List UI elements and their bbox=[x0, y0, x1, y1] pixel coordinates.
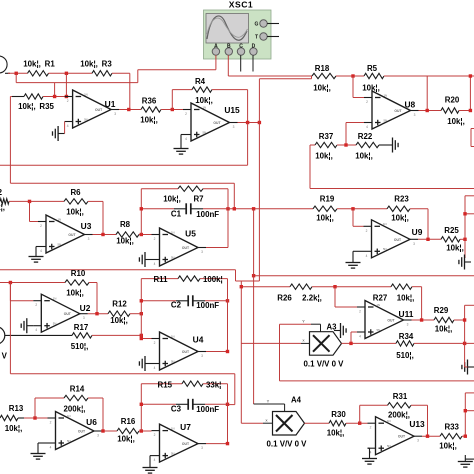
svg-text:200k¦,: 200k¦, bbox=[64, 405, 86, 414]
wire C2 box left bbox=[140, 279, 142, 339]
svg-text:3: 3 bbox=[407, 323, 409, 327]
resistor R2 (clipped) bbox=[0, 199, 9, 204]
svg-text:2: 2 bbox=[370, 426, 372, 430]
wire right edge stub upper bbox=[471, 129, 474, 147]
wire U11 plus from A3 out bbox=[351, 332, 357, 343]
resistor R4 bbox=[192, 87, 212, 92]
svg-text:0.1 V/V 0 V: 0.1 V/V 0 V bbox=[267, 440, 308, 449]
svg-text:5N: 5N bbox=[58, 242, 62, 246]
resistor R3 bbox=[92, 71, 112, 76]
wire U3 plus to ground bbox=[36, 247, 38, 251]
ground below R25 (rotated) bbox=[459, 255, 471, 270]
wire source jog to U1 input row bbox=[16, 73, 138, 96]
label R33 value bbox=[439, 442, 457, 451]
svg-text:1N: 1N bbox=[384, 93, 388, 97]
wire top-right row bbox=[228, 75, 312, 77]
oscilloscope bottom terminals A B C D bbox=[212, 43, 257, 55]
label R23 name bbox=[394, 195, 409, 204]
label R2 value (clipped) bbox=[0, 203, 5, 212]
node junction at 103,431 bbox=[101, 429, 104, 432]
node junction at 66.4,96.5 bbox=[65, 95, 68, 98]
svg-text:3: 3 bbox=[413, 242, 415, 246]
svg-text:10k¦,: 10k¦, bbox=[362, 84, 380, 93]
wire R37 left drop bbox=[310, 145, 315, 189]
resistor R15 bbox=[182, 381, 203, 386]
wire R34 right bbox=[414, 342, 474, 344]
svg-text:10k¦,: 10k¦, bbox=[140, 116, 158, 125]
svg-text:R17: R17 bbox=[74, 323, 89, 332]
resistor R34 bbox=[396, 341, 414, 346]
node junction at 227.5,351.5 bbox=[226, 350, 229, 353]
source V1 (AC input, clipped at edge) bbox=[0, 56, 10, 73]
oscilloscope side terminals G T bbox=[255, 20, 279, 41]
node junction at 172.3,109.5 bbox=[171, 108, 174, 111]
label R20 value bbox=[447, 117, 465, 126]
label A3 X pin bbox=[302, 338, 305, 343]
label C2 name bbox=[171, 301, 182, 310]
svg-text:R4: R4 bbox=[195, 77, 206, 86]
label R15 value bbox=[206, 380, 221, 389]
wire U15 output bbox=[238, 122, 261, 124]
node junction at 227.5,443.6 bbox=[226, 442, 229, 445]
svg-text:1N: 1N bbox=[203, 105, 207, 109]
label R19 name bbox=[320, 195, 335, 204]
wire node to U1 inverting input bbox=[65, 73, 67, 96]
label C3 value bbox=[196, 405, 219, 414]
svg-text:1N: 1N bbox=[53, 297, 57, 301]
label R15 name bbox=[158, 380, 173, 389]
svg-text:OUT: OUT bbox=[398, 435, 406, 439]
svg-text:10k¦,: 10k¦, bbox=[163, 195, 181, 204]
node junction at 141.3,313.7 bbox=[140, 312, 143, 315]
label R10 value bbox=[66, 289, 84, 298]
svg-text:200k¦,: 200k¦, bbox=[388, 411, 410, 420]
label R4 name bbox=[195, 77, 206, 86]
wire R35 to U1 minus bbox=[43, 96, 65, 98]
svg-text:10k¦,: 10k¦, bbox=[313, 84, 331, 93]
svg-text:OUT: OUT bbox=[394, 109, 402, 113]
label A4 name bbox=[291, 396, 302, 405]
wire source to R1 row bbox=[8, 72, 28, 74]
svg-text:5N: 5N bbox=[384, 118, 388, 122]
ground bottom-right bbox=[458, 455, 473, 467]
wire U7 output bbox=[206, 443, 228, 445]
svg-text:R8: R8 bbox=[120, 220, 131, 229]
node junction at 427.2,110.5 bbox=[426, 109, 429, 112]
svg-text:U5: U5 bbox=[185, 229, 196, 239]
svg-text:2: 2 bbox=[50, 421, 52, 425]
svg-text:100nF: 100nF bbox=[196, 301, 219, 310]
wire R25 right network bbox=[460, 196, 474, 240]
label R36 name bbox=[142, 97, 157, 106]
ground below R34 (rotated) bbox=[462, 360, 474, 375]
svg-text:10k¦,: 10k¦, bbox=[316, 214, 334, 223]
resistor R30 bbox=[329, 421, 346, 426]
svg-text:2.2k¦,: 2.2k¦, bbox=[302, 294, 322, 303]
svg-text:R23: R23 bbox=[394, 195, 409, 204]
svg-text:10k¦,: 10k¦, bbox=[0, 203, 5, 212]
svg-text:2: 2 bbox=[366, 229, 368, 233]
wire U2 output row bbox=[88, 313, 108, 315]
svg-text:5N: 5N bbox=[171, 359, 175, 363]
wire node to U11 minus bbox=[335, 287, 357, 307]
wire R35 left rail down bbox=[10, 97, 12, 184]
svg-text:R13: R13 bbox=[9, 404, 24, 413]
svg-text:5N: 5N bbox=[377, 328, 381, 332]
wire R27 right leg down bbox=[412, 287, 422, 320]
label R30 value bbox=[327, 429, 345, 438]
node junction at 465.3,410.7 bbox=[464, 409, 467, 412]
ground at U7 plus input bbox=[143, 461, 158, 473]
svg-text:10k¦,: 10k¦, bbox=[315, 152, 333, 161]
svg-text:4: 4 bbox=[366, 254, 368, 258]
wire A4 X input bbox=[241, 422, 272, 424]
svg-text:5N: 5N bbox=[171, 255, 175, 259]
resistor R16 bbox=[117, 428, 139, 433]
svg-text:3: 3 bbox=[201, 250, 203, 254]
svg-text:4: 4 bbox=[366, 125, 368, 129]
label R11 value bbox=[203, 275, 223, 284]
node junction at 141.3,431 bbox=[140, 429, 143, 432]
svg-text:R19: R19 bbox=[320, 195, 335, 204]
svg-text:OUT: OUT bbox=[78, 430, 86, 434]
svg-text:R29: R29 bbox=[434, 306, 449, 315]
op-amp U6 bbox=[48, 412, 103, 450]
label A3 Y pin bbox=[302, 319, 305, 324]
ground at U3 plus input bbox=[29, 250, 44, 262]
svg-text:10k¦,: 10k¦, bbox=[391, 214, 409, 223]
node junction at 141.3,234.5 bbox=[140, 233, 143, 236]
wire R5 right to edge bbox=[384, 75, 474, 77]
svg-text:2: 2 bbox=[154, 433, 156, 437]
node junction at 141.3,335.4 bbox=[140, 334, 143, 337]
resistor R33 bbox=[440, 434, 462, 439]
wire C1 branch bbox=[141, 208, 228, 210]
svg-text:0.1 V/V 0 V: 0.1 V/V 0 V bbox=[304, 360, 345, 369]
wire R8 to U5 minus node bbox=[139, 234, 152, 236]
label R8 name bbox=[120, 220, 131, 229]
wire U15 output bottom loop bbox=[0, 123, 248, 166]
svg-text:R15: R15 bbox=[158, 380, 173, 389]
wire source to R17 bbox=[5, 334, 72, 336]
label A4 X pin bbox=[265, 418, 268, 423]
wire R4 right leg bbox=[212, 90, 248, 123]
svg-text:3: 3 bbox=[233, 125, 235, 129]
op-amp U2 bbox=[33, 294, 90, 332]
label R29 value bbox=[435, 325, 453, 334]
wire R3 to U1 output (feedback) bbox=[112, 73, 130, 109]
resistor R18 bbox=[312, 73, 336, 78]
oscilloscope XSC1 body and screen bbox=[204, 10, 272, 59]
wire node to U9 minus bbox=[353, 209, 364, 227]
node junction at 470.4,110.5 bbox=[469, 109, 472, 112]
wire bottom-right stub bbox=[465, 458, 474, 460]
label R23 value bbox=[391, 214, 409, 223]
op-amp U3 bbox=[38, 215, 93, 253]
resistor R10 bbox=[65, 280, 89, 285]
op-amp U7 bbox=[152, 422, 207, 462]
svg-text:B: B bbox=[227, 43, 231, 49]
wire U6 output row bbox=[102, 430, 117, 432]
svg-text:R6: R6 bbox=[70, 188, 81, 197]
svg-text:R30: R30 bbox=[331, 410, 346, 419]
wire A3 out to R34 bbox=[342, 342, 397, 344]
svg-text:R10: R10 bbox=[71, 269, 86, 278]
node junction at 10.4,282.5 bbox=[9, 281, 12, 284]
svg-text:10k¦, R3: 10k¦, R3 bbox=[80, 60, 112, 69]
svg-text:C3: C3 bbox=[171, 405, 182, 414]
node junction at 97,313.7 bbox=[95, 312, 98, 315]
wire A4 out to R30 bbox=[305, 422, 330, 424]
svg-text:2: 2 bbox=[359, 310, 361, 314]
resistor R31 bbox=[388, 403, 412, 408]
svg-text:10k¦,: 10k¦, bbox=[435, 325, 453, 334]
label source 0 V bbox=[0, 352, 8, 361]
node junction at 465,239.3 bbox=[463, 238, 466, 241]
node junction at 66.4,73.3 bbox=[65, 72, 68, 75]
svg-text:Y: Y bbox=[267, 399, 270, 404]
node junction at 464.6,343.4 bbox=[463, 342, 466, 345]
ground at U9 plus input bbox=[346, 256, 361, 268]
wire U8 plus input bbox=[346, 123, 364, 146]
label R7 name bbox=[193, 195, 204, 204]
wire C1 box left bbox=[140, 189, 142, 235]
label A4 Y pin bbox=[267, 399, 270, 404]
svg-text:33k¦: 33k¦ bbox=[206, 380, 221, 389]
wire R5 feedback down to U8 out bbox=[426, 76, 428, 111]
svg-text:C1: C1 bbox=[171, 210, 182, 219]
multiplier A4 bbox=[273, 412, 305, 436]
node junction at 464.6,320 bbox=[463, 318, 466, 321]
wire R14 right leg bbox=[88, 398, 103, 431]
svg-text:10k¦,: 10k¦, bbox=[5, 424, 23, 433]
svg-text:3: 3 bbox=[417, 439, 419, 443]
svg-text:R37: R37 bbox=[319, 132, 334, 141]
svg-text:R5: R5 bbox=[367, 64, 378, 73]
svg-text:5N: 5N bbox=[383, 247, 387, 251]
op-amp U1 bbox=[65, 90, 120, 128]
wire R10 right leg down bbox=[89, 283, 97, 314]
node junction at 29.5,201.4 bbox=[28, 200, 31, 203]
wire R15 branch bbox=[141, 383, 227, 385]
label C1 name bbox=[171, 210, 182, 219]
svg-text:Y: Y bbox=[302, 319, 305, 324]
svg-text:4: 4 bbox=[154, 366, 156, 370]
svg-text:R27: R27 bbox=[373, 294, 388, 303]
wire U1 plus stub bbox=[64, 121, 66, 123]
wire node to U8 minus bbox=[353, 76, 364, 98]
label R4 value bbox=[195, 96, 213, 105]
svg-text:4: 4 bbox=[35, 328, 37, 332]
node junction at 234.3,208.8 bbox=[233, 207, 236, 210]
label R2 name (clipped) bbox=[0, 188, 3, 197]
svg-text:1N: 1N bbox=[377, 303, 381, 307]
ground at U4 plus input bbox=[139, 356, 151, 371]
wire U5 node to R19 bbox=[228, 208, 313, 210]
label R14 value bbox=[64, 405, 86, 414]
wire U15 output up to top-right row bbox=[259, 76, 311, 123]
ground at U1 plus input bbox=[53, 126, 65, 141]
label R26 name bbox=[277, 294, 292, 303]
node junction at 346,145 bbox=[344, 143, 347, 146]
svg-text:R34: R34 bbox=[399, 332, 414, 341]
svg-text:U11: U11 bbox=[399, 309, 414, 319]
wire R36 to U15 minus bbox=[161, 109, 183, 111]
label A4 gain bbox=[267, 440, 308, 449]
resistor R6 bbox=[64, 199, 88, 204]
svg-text:10k¦,: 10k¦, bbox=[447, 117, 465, 126]
svg-text:10k¦,: 10k¦, bbox=[439, 442, 457, 451]
label R17 value bbox=[71, 342, 89, 351]
svg-text:R36: R36 bbox=[142, 97, 157, 106]
resistor R17 bbox=[72, 333, 92, 338]
svg-text:1N: 1N bbox=[171, 230, 175, 234]
svg-text:3: 3 bbox=[83, 316, 85, 320]
wire R2 to R6 bbox=[9, 200, 64, 202]
node junction at 428,239.3 bbox=[426, 238, 429, 241]
label R34 value bbox=[396, 351, 414, 360]
label A3 name bbox=[327, 323, 338, 332]
label R12 value bbox=[110, 316, 128, 325]
node junction at 103,234.5 bbox=[101, 233, 104, 236]
svg-text:U13: U13 bbox=[409, 419, 425, 429]
svg-text:0 V: 0 V bbox=[0, 352, 8, 361]
svg-text:OUT: OUT bbox=[182, 350, 190, 354]
wire C2 box right bbox=[227, 279, 229, 352]
op-amp U8 bbox=[364, 91, 419, 129]
resistor R26 bbox=[290, 284, 312, 289]
label R35 value bbox=[18, 102, 54, 111]
label R3 value bbox=[80, 60, 112, 69]
node junction at 421.6,320 bbox=[420, 318, 423, 321]
node junction at 141.3,338.5 bbox=[140, 337, 143, 340]
wire rail E bbox=[254, 275, 474, 277]
node junction at 128.8,109.5 bbox=[127, 108, 130, 111]
svg-text:510¦,: 510¦, bbox=[396, 351, 414, 360]
svg-text:100k¦: 100k¦ bbox=[203, 275, 223, 284]
wire A3 X input bbox=[241, 342, 309, 344]
node junction at 228,208.8 bbox=[226, 207, 229, 210]
label R22 value bbox=[355, 152, 373, 161]
wire R16 to U7 node bbox=[139, 430, 152, 432]
svg-text:T: T bbox=[255, 35, 258, 41]
ground at U2 plus input bbox=[21, 318, 33, 333]
wire node to U3 minus bbox=[30, 201, 39, 221]
node junction at 227.5,300.8 bbox=[226, 299, 229, 302]
node junction at 351,343.4 bbox=[349, 342, 352, 345]
label R25 name bbox=[444, 226, 459, 235]
svg-text:R31: R31 bbox=[393, 392, 408, 401]
wire C3 branch bbox=[141, 403, 227, 405]
svg-text:U9: U9 bbox=[412, 227, 423, 237]
label R25 value bbox=[446, 244, 464, 253]
label C2 value bbox=[196, 301, 219, 310]
capacitor C1 bbox=[174, 203, 203, 214]
wire U4 output bbox=[206, 351, 228, 353]
node junction at 241.3,286.7 bbox=[240, 285, 243, 288]
wire U7 plus to ground bbox=[150, 456, 152, 461]
svg-text:5N: 5N bbox=[203, 130, 207, 134]
wire rail C bbox=[10, 183, 234, 209]
multiplier A3 bbox=[310, 332, 342, 356]
svg-text:U8: U8 bbox=[404, 100, 415, 110]
wire R37 to R22 bbox=[337, 144, 356, 146]
wire U15 plus to ground bbox=[181, 135, 183, 143]
label R12 name bbox=[112, 300, 127, 309]
svg-text:4: 4 bbox=[154, 458, 156, 462]
wire scope A probe bbox=[138, 55, 216, 82]
label R5 name bbox=[367, 64, 378, 73]
svg-text:10k¦,: 10k¦, bbox=[355, 152, 373, 161]
svg-text:4: 4 bbox=[40, 249, 42, 253]
label R13 name bbox=[9, 404, 24, 413]
wire R6 right leg down bbox=[88, 201, 103, 234]
wire scope B probe bbox=[227, 55, 229, 76]
svg-text:OUT: OUT bbox=[68, 233, 76, 237]
wire R31 right leg bbox=[411, 405, 428, 436]
node junction at 141.3,300.8 bbox=[140, 299, 143, 302]
svg-text:10k¦,: 10k¦, bbox=[66, 208, 84, 217]
svg-text:1N: 1N bbox=[84, 92, 88, 96]
svg-text:2: 2 bbox=[35, 303, 37, 307]
wire R25 node to ground bbox=[464, 239, 466, 258]
resistor R5 bbox=[364, 73, 384, 78]
wire R20 right up to row bbox=[459, 76, 470, 111]
svg-text:4: 4 bbox=[359, 335, 361, 339]
wire rail G (A3 Y feed) bbox=[280, 380, 474, 382]
wire R30 to U13 minus bbox=[346, 422, 368, 424]
label R37 value bbox=[315, 152, 333, 161]
op-amp U11 bbox=[357, 301, 414, 339]
wire U5 output bbox=[206, 247, 228, 249]
wire U13 plus to ground bbox=[368, 448, 370, 452]
label R8 value bbox=[116, 237, 134, 246]
svg-text:3: 3 bbox=[114, 112, 116, 116]
label R34 name bbox=[399, 332, 414, 341]
resistor R1 bbox=[28, 71, 49, 76]
svg-text:1N: 1N bbox=[58, 217, 62, 221]
svg-text:10k¦, R1: 10k¦, R1 bbox=[23, 60, 55, 69]
svg-text:R33: R33 bbox=[444, 423, 459, 432]
svg-text:4: 4 bbox=[50, 446, 52, 450]
svg-text:OUT: OUT bbox=[64, 312, 72, 316]
oscilloscope XSC1 label bbox=[229, 0, 253, 10]
svg-text:10k¦,: 10k¦, bbox=[446, 244, 464, 253]
svg-text:100nF: 100nF bbox=[196, 405, 219, 414]
svg-text:R26: R26 bbox=[277, 294, 292, 303]
label R5 value bbox=[362, 84, 380, 93]
wire R13 to U6 minus bbox=[24, 417, 48, 419]
svg-text:U1: U1 bbox=[105, 99, 116, 109]
label R37 name bbox=[319, 132, 334, 141]
svg-text:2: 2 bbox=[366, 100, 368, 104]
node junction at 247.6,122.5 bbox=[246, 121, 249, 124]
svg-text:4: 4 bbox=[67, 124, 69, 128]
svg-text:OUT: OUT bbox=[182, 442, 190, 446]
wire R1 to R3 bbox=[49, 72, 93, 74]
svg-text:OUT: OUT bbox=[95, 108, 103, 112]
label R33 name bbox=[444, 423, 459, 432]
svg-text:10k¦,: 10k¦, bbox=[327, 429, 345, 438]
node junction at 465.3,436.2 bbox=[464, 435, 467, 438]
resistor R13 bbox=[0, 415, 24, 420]
node junction at 353,76 bbox=[351, 74, 354, 77]
node junction at 253.6,208.8 bbox=[252, 207, 255, 210]
node junction at 54.6,96.5 bbox=[53, 95, 56, 98]
svg-text:U2: U2 bbox=[80, 303, 91, 313]
svg-text:2: 2 bbox=[40, 224, 42, 228]
wire R10 row bbox=[0, 282, 65, 284]
